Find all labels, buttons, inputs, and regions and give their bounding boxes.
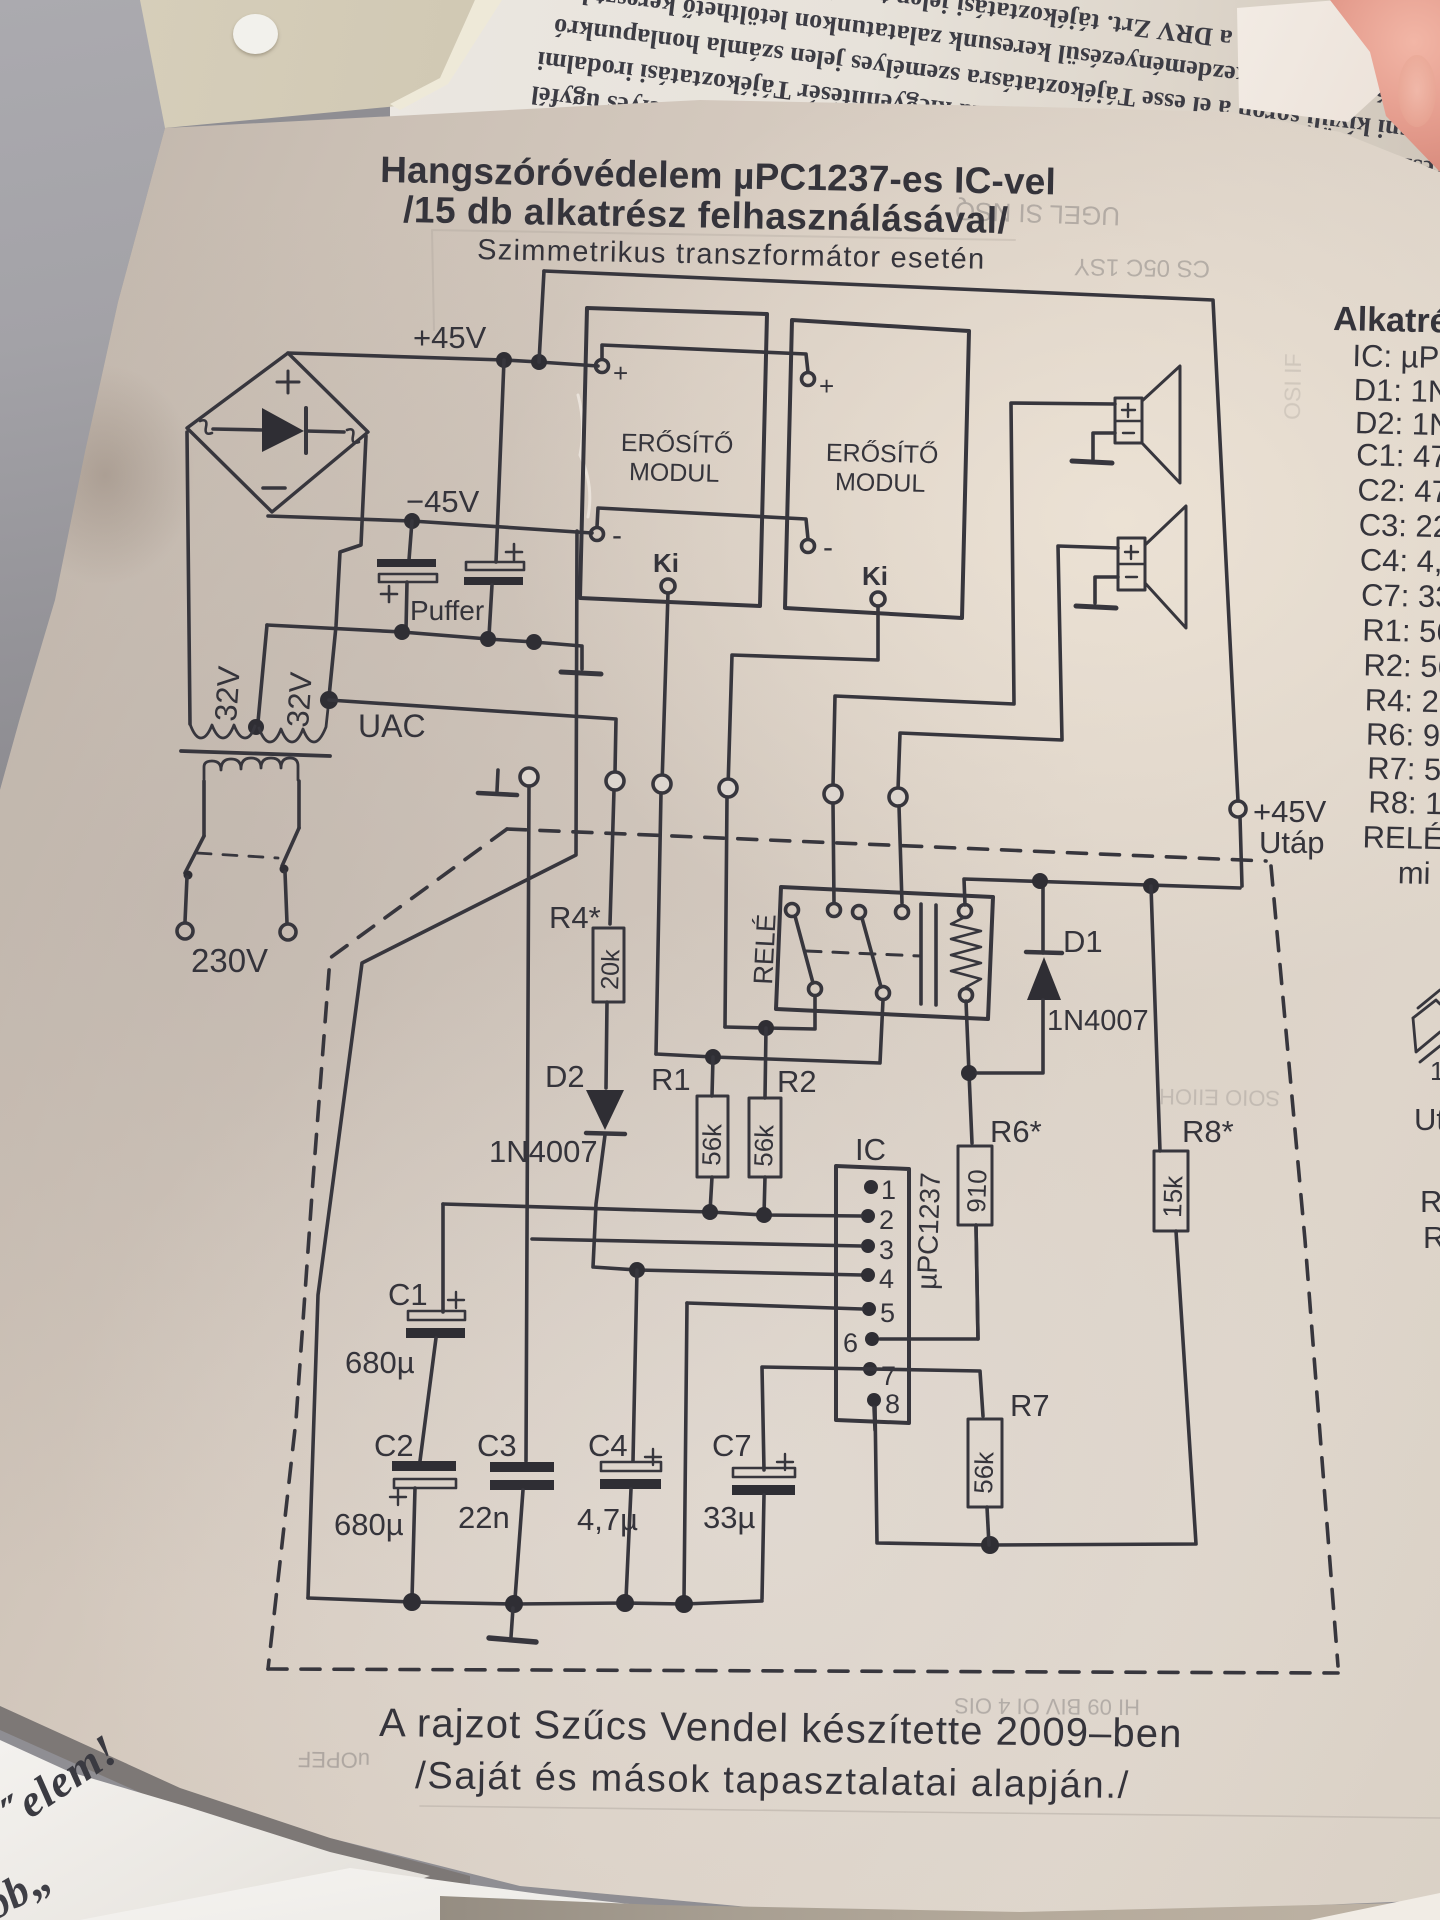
transformer T1 secondary windings bbox=[190, 699, 329, 742]
wire UAC line bbox=[329, 700, 616, 773]
junction dot R8 top bbox=[1143, 878, 1159, 894]
centre tap dot bbox=[248, 719, 264, 735]
pink finger top-right bbox=[1310, 0, 1440, 210]
svg-text:1: 1 bbox=[1430, 1056, 1440, 1086]
module 1 - terminal bbox=[591, 528, 604, 541]
svg-text:C2: C2 bbox=[374, 1428, 414, 1463]
svg-text:IC: IC bbox=[855, 1132, 886, 1167]
junction dot bbox=[394, 624, 410, 640]
svg-text:C3: 22: C3: 22 bbox=[1358, 507, 1440, 544]
pin6 wire riser bbox=[976, 1225, 978, 1339]
svg-text:R4*: R4* bbox=[549, 900, 601, 935]
capacitor C3 bbox=[490, 1462, 554, 1472]
svg-text:32V: 32V bbox=[280, 671, 319, 729]
pin 5 bbox=[862, 1302, 876, 1316]
svg-text:OSI IF: OSI IF bbox=[1279, 353, 1306, 420]
svg-text:R6*: R6* bbox=[990, 1114, 1042, 1149]
svg-text:UGEL SI NSQ: UGEL SI NSQ bbox=[954, 196, 1120, 232]
svg-text:+: + bbox=[819, 371, 834, 401]
resistor R8 bbox=[1154, 1151, 1188, 1231]
wire Ki2 jog down to boundary bbox=[728, 606, 878, 788]
svg-text:56k: 56k bbox=[748, 1123, 779, 1167]
junction dot coil/D1 bbox=[961, 1065, 977, 1081]
pin 1 bbox=[864, 1180, 878, 1194]
svg-text:R2: R2 bbox=[777, 1064, 817, 1099]
wire coil bottom to R6 bbox=[966, 1001, 972, 1143]
pin 7 bbox=[863, 1362, 877, 1376]
wire speaker2 + feed bbox=[898, 546, 1118, 790]
svg-text:33µ: 33µ bbox=[703, 1500, 755, 1535]
wire module1+ to module2+ jog bbox=[602, 345, 808, 372]
junction dot R1 top bbox=[705, 1049, 721, 1065]
amplifier module 2 box bbox=[785, 320, 969, 618]
wire D down to R2 net bbox=[725, 797, 727, 1027]
wire module1- to module2- jog bbox=[597, 508, 808, 539]
ground symbol speaker2 bbox=[1076, 606, 1116, 608]
svg-text:C2: 47: C2: 47 bbox=[1357, 472, 1440, 509]
capacitor C7 bbox=[733, 1468, 795, 1477]
pale folded corner wedge bbox=[1180, 0, 1440, 160]
wire pin7 net bbox=[762, 1367, 983, 1470]
rotated big serif text scraps bbox=[0, 1626, 310, 1893]
svg-text:680µ: 680µ bbox=[334, 1507, 404, 1542]
svg-text:C7: C7 bbox=[712, 1428, 752, 1463]
pin 6 bbox=[865, 1332, 879, 1346]
svg-text:15k: 15k bbox=[1157, 1174, 1188, 1218]
svg-text:Ki: Ki bbox=[653, 548, 679, 578]
wire pin5 net bbox=[687, 1303, 862, 1309]
right edge pictorial relay sketch bbox=[1413, 990, 1440, 1062]
svg-text:D2: D2 bbox=[545, 1059, 585, 1094]
relay K1 box bbox=[776, 887, 993, 1019]
relay contact bottoms bbox=[809, 983, 822, 996]
svg-text:8: 8 bbox=[885, 1389, 900, 1419]
speaker 2 terminal box bbox=[1118, 538, 1145, 590]
bridge AC squiggle left bbox=[200, 420, 212, 434]
svg-text:MODUL: MODUL bbox=[629, 458, 720, 488]
ground symbol bottom bbox=[489, 1608, 536, 1642]
junction dot D1 top bbox=[1032, 873, 1048, 889]
svg-text:32V: 32V bbox=[208, 665, 247, 723]
svg-text:56k: 56k bbox=[696, 1122, 727, 1166]
svg-text:R1: 56: R1: 56 bbox=[1362, 612, 1440, 649]
resistor R2 bbox=[749, 1098, 781, 1177]
junction dot C4 top bbox=[629, 1262, 645, 1278]
svg-text:RELÉ: RELÉ bbox=[748, 913, 782, 985]
module 2 + terminal bbox=[802, 373, 815, 386]
wire speaker2 - to ground bbox=[1095, 577, 1118, 603]
svg-text:µPC1237: µPC1237 bbox=[911, 1172, 946, 1290]
svg-text:6: 6 bbox=[843, 1328, 858, 1358]
svg-text:R8: 1: R8: 1 bbox=[1368, 785, 1440, 822]
wire relay b2 to R1 net bbox=[656, 1000, 883, 1063]
ground symbol main bbox=[561, 672, 601, 674]
wire C down to R1 net bbox=[656, 793, 661, 1054]
resistor R7 bbox=[968, 1419, 1002, 1507]
wire -45V down to cap C-A bbox=[409, 521, 412, 560]
wire top loop to right bbox=[544, 271, 1238, 801]
junction dot bbox=[526, 634, 542, 650]
svg-text:R: R bbox=[1420, 1184, 1440, 1219]
wire +45V rail bbox=[288, 353, 598, 366]
svg-text:C1: C1 bbox=[388, 1277, 428, 1312]
svg-text:C3: C3 bbox=[477, 1428, 517, 1463]
wire +45V down to cap C-B bbox=[496, 360, 504, 562]
wire UAC node riser to bridge right bbox=[329, 436, 366, 697]
junction dot bbox=[480, 631, 496, 647]
svg-text:-: - bbox=[612, 519, 622, 552]
faint printed frame edge bbox=[432, 230, 1015, 330]
wire secondary left leg up to bridge bbox=[187, 432, 190, 724]
wire -45V rail bbox=[268, 516, 592, 533]
svg-text:3: 3 bbox=[879, 1235, 894, 1265]
svg-text:−45V: −45V bbox=[406, 484, 480, 519]
svg-text:Szimmetrikus transzformátor es: Szimmetrikus transzformátor esetén bbox=[477, 234, 986, 276]
svg-text:R7: R7 bbox=[1010, 1388, 1050, 1423]
speaker 2 horn bbox=[1145, 506, 1186, 628]
svg-text:1: 1 bbox=[881, 1175, 896, 1205]
wire R8 top bbox=[1151, 886, 1160, 1151]
wire riser to top loop bbox=[539, 271, 544, 362]
switch link dashed bbox=[197, 853, 278, 858]
diode D2 bbox=[586, 1090, 624, 1130]
wire R4 to D2 bbox=[606, 1002, 607, 1088]
wire F down to relay contact 4 bbox=[899, 806, 902, 903]
bridge rectifier B1 diamond bbox=[187, 353, 368, 512]
pin 2 bbox=[861, 1209, 875, 1223]
wire E down to relay contact 2 bbox=[833, 803, 834, 903]
pin 4 bbox=[861, 1268, 875, 1282]
svg-text:RELÉ: RELÉ bbox=[1362, 819, 1440, 856]
faint bleed-through marks bbox=[298, 196, 1307, 1773]
wire relay b1 to R2 net bbox=[725, 996, 815, 1029]
svg-text:Utá: Utá bbox=[1414, 1102, 1440, 1137]
svg-text:R6: 9: R6: 9 bbox=[1366, 716, 1440, 753]
boundary terminal C bbox=[653, 775, 671, 793]
punch hole bbox=[233, 14, 278, 54]
svg-text:Ki: Ki bbox=[862, 561, 888, 591]
parts list body bbox=[1340, 338, 1440, 891]
white paper with upside-down text (backdrop band across the top) bbox=[390, 0, 1440, 210]
ground bus under puffer bbox=[267, 625, 582, 669]
wire bus to centre tap bbox=[258, 625, 267, 722]
ground symbol speaker1 bbox=[1072, 461, 1112, 463]
pin 8 bbox=[867, 1393, 881, 1407]
svg-text:R2: 56: R2: 56 bbox=[1363, 647, 1440, 684]
bridge + mark bbox=[277, 371, 299, 393]
wire pin8 stub bbox=[874, 1407, 875, 1430]
svg-text:22n: 22n bbox=[458, 1500, 510, 1535]
wire speaker1 + feed bbox=[833, 403, 1115, 786]
amplifier module 1 box bbox=[580, 308, 767, 606]
wire coil top to +45utap line bbox=[964, 879, 1240, 905]
wire C4 branch bbox=[633, 1270, 637, 1461]
boundary terminal F bbox=[889, 788, 907, 806]
UAC node dot bbox=[320, 691, 338, 709]
resistor R4 bbox=[593, 928, 624, 1002]
svg-text:R: R bbox=[1423, 1220, 1440, 1255]
cream punched paper top-left bbox=[0, 0, 560, 180]
svg-text:IC: µPC: IC: µPC bbox=[1352, 338, 1440, 375]
svg-text:R7: 5: R7: 5 bbox=[1367, 751, 1440, 788]
switch S1 pole right bbox=[280, 781, 300, 940]
svg-text:910: 910 bbox=[961, 1169, 992, 1213]
bottom-right white wedge bbox=[1290, 1885, 1440, 1920]
svg-text:4,7µ: 4,7µ bbox=[577, 1502, 638, 1537]
svg-text:C7: 33: C7: 33 bbox=[1361, 577, 1440, 614]
node dot bbox=[531, 354, 547, 370]
capacitor C2 bbox=[392, 1461, 456, 1471]
svg-text:R1: R1 bbox=[651, 1062, 691, 1097]
svg-text:2: 2 bbox=[879, 1205, 894, 1235]
svg-text:7: 7 bbox=[881, 1361, 896, 1391]
junction dot R7 bottom bbox=[981, 1536, 999, 1554]
resistor R6 bbox=[958, 1146, 992, 1225]
diode D1 bbox=[1041, 881, 1045, 953]
module 1 + terminal bbox=[596, 360, 609, 373]
svg-text:mi: mi bbox=[1397, 855, 1431, 891]
svg-text:/Saját és mások tapasztalatai: /Saját és mások tapasztalatai alapján./ bbox=[415, 1755, 1130, 1807]
resistor R1 bbox=[697, 1096, 728, 1177]
relay coil core bars bbox=[919, 904, 923, 1004]
junction dot R2 top bbox=[758, 1020, 774, 1036]
relay arm 2 bbox=[862, 918, 881, 987]
svg-text:+45V: +45V bbox=[413, 320, 487, 355]
boundary terminal E bbox=[824, 785, 842, 803]
wire B down to R4 bbox=[610, 790, 614, 924]
svg-text:UAC: UAC bbox=[358, 708, 426, 744]
relay contact pivots top bbox=[786, 904, 799, 917]
svg-text:C4: 4,: C4: 4, bbox=[1360, 542, 1440, 579]
shadow band under paper top edge bbox=[0, 0, 1440, 400]
svg-text:SOIO EIIOH: SOIO EIIOH bbox=[1159, 1084, 1280, 1111]
svg-text:4: 4 bbox=[879, 1264, 894, 1294]
svg-text:+45V: +45V bbox=[1253, 794, 1327, 829]
svg-text:20k: 20k bbox=[596, 948, 625, 990]
transformer core lines bbox=[181, 751, 330, 756]
bridge AC squiggle right bbox=[347, 429, 359, 443]
faint paper rule lines bbox=[420, 1806, 1440, 1818]
wire A down to C3 bbox=[526, 786, 529, 1461]
relay mechanical link dashed bbox=[806, 951, 921, 956]
wire pin2 net bbox=[443, 1204, 861, 1216]
svg-text:Alkatré: Alkatré bbox=[1333, 300, 1440, 341]
svg-text:ERŐSÍTŐ: ERŐSÍTŐ bbox=[621, 428, 734, 459]
capacitor C4 bbox=[601, 1462, 661, 1471]
torn edge highlight of cream paper bbox=[390, 0, 520, 120]
capacitor C1 bbox=[441, 1204, 445, 1312]
bottom strip surfaces bbox=[440, 1882, 1440, 1920]
svg-text:56k: 56k bbox=[968, 1450, 999, 1494]
svg-text:+: + bbox=[613, 358, 628, 388]
wire R6 bottom to pin6 bbox=[880, 1225, 978, 1339]
background: grey table surface top-left bbox=[0, 0, 260, 820]
svg-text:C4: C4 bbox=[588, 1428, 628, 1463]
node dot -45V bbox=[404, 513, 420, 529]
relay arm 1 bbox=[795, 916, 813, 983]
ground symbol at A bbox=[478, 770, 517, 795]
wire left border (-45V feed) down to bottom rail bbox=[308, 531, 577, 1598]
svg-text:HI 09 BIV OI 4 OIS: HI 09 BIV OI 4 OIS bbox=[954, 1693, 1140, 1720]
svg-text:R4: 2: R4: 2 bbox=[1364, 682, 1439, 719]
wire speaker1 - to ground bbox=[1093, 433, 1115, 459]
switch S1 pole left bbox=[177, 781, 204, 939]
wire Ki1 down to boundary bbox=[662, 593, 668, 784]
boundary terminal D bbox=[719, 779, 737, 797]
bridge diode element bbox=[213, 408, 344, 453]
pin 3 bbox=[861, 1239, 875, 1253]
capacitor puffer B bbox=[464, 544, 524, 636]
bridge - mark bbox=[263, 486, 285, 490]
svg-text:uOPEF: uOPEF bbox=[298, 1747, 371, 1773]
paper crease highlight bbox=[578, 395, 590, 517]
bottom rail bbox=[308, 1598, 762, 1604]
svg-text:D1: 1N: D1: 1N bbox=[1353, 372, 1440, 409]
transformer primary winding bbox=[204, 758, 298, 780]
svg-text:D1: D1 bbox=[1063, 924, 1103, 959]
boundary terminal A bbox=[520, 768, 538, 786]
bottom-left white papers bbox=[0, 1720, 560, 1920]
svg-text:1N4007: 1N4007 bbox=[1047, 1005, 1149, 1037]
svg-text:Utáp: Utáp bbox=[1259, 825, 1324, 860]
relay coil spring bbox=[959, 905, 972, 918]
svg-text:1N4007: 1N4007 bbox=[489, 1134, 598, 1169]
svg-text:MODUL: MODUL bbox=[835, 468, 926, 498]
svg-text:-: - bbox=[823, 531, 833, 564]
svg-text:ERŐSÍTŐ: ERŐSÍTŐ bbox=[826, 438, 939, 469]
node dot bbox=[496, 352, 512, 368]
module 2 - terminal bbox=[802, 540, 815, 553]
speaker 1 terminal box bbox=[1115, 398, 1142, 443]
+45V Utap terminal bbox=[1230, 801, 1246, 817]
svg-text:5: 5 bbox=[880, 1298, 895, 1328]
capacitor puffer A bbox=[377, 559, 437, 630]
svg-text:680µ: 680µ bbox=[345, 1345, 415, 1380]
bottom-left: shadow under paper edge bbox=[0, 1600, 900, 1920]
svg-text:CS 05C 1SY: CS 05C 1SY bbox=[1074, 253, 1211, 282]
svg-text:230V: 230V bbox=[191, 942, 268, 979]
speaker 1 horn bbox=[1142, 366, 1180, 483]
svg-text:Puffer: Puffer bbox=[410, 595, 484, 626]
svg-text:R8*: R8* bbox=[1182, 1114, 1234, 1149]
wire R8 bottom to pin8 bus bbox=[875, 1231, 1196, 1545]
IC U1 box bbox=[836, 1166, 909, 1423]
boundary terminal B bbox=[606, 772, 624, 790]
dashed boundary of protection unit bbox=[268, 829, 1338, 1673]
wire pin3 net bbox=[532, 1239, 861, 1246]
svg-text:C1: 47: C1: 47 bbox=[1356, 437, 1440, 474]
